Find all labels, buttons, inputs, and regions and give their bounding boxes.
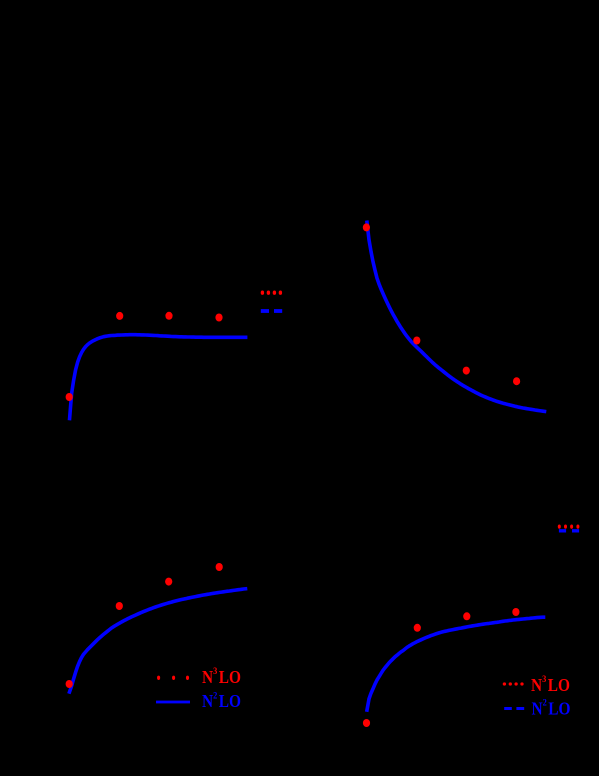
svg-text:2: 2 [543,697,548,708]
svg-text:N: N [202,691,213,711]
svg-text:3: 3 [542,674,547,685]
svg-text:3: 3 [213,666,218,677]
svg-text:LO: LO [219,667,241,687]
svg-text:N: N [202,667,213,687]
svg-text:N: N [532,698,543,718]
svg-text:LO: LO [219,691,241,711]
svg-text:LO: LO [548,698,570,718]
svg-text:LO: LO [548,675,570,695]
svg-text:2: 2 [213,690,218,701]
svg-text:N: N [531,675,542,695]
